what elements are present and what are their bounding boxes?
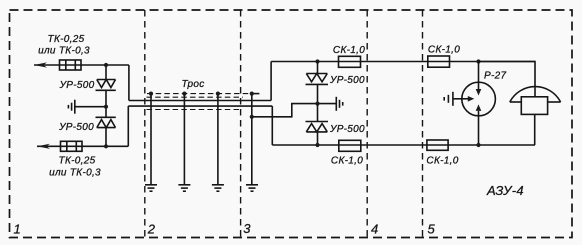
wire: lower pair line <box>128 105 272 107</box>
svg-text:Р-27: Р-27 <box>484 71 506 82</box>
fuse ТК F2 bottom <box>61 141 83 151</box>
wire: link from cable ground to arrester midpoint <box>252 104 318 117</box>
section divider 4/5 <box>422 10 424 238</box>
telephone chord left <box>510 101 522 103</box>
node: circle top junction <box>476 59 480 63</box>
arrester УР-500 upper (section 3) <box>306 74 329 85</box>
ground (left-facing) section 1 <box>68 100 74 114</box>
wire: chain vertical upper section 3 <box>317 62 319 74</box>
svg-text:УР-500: УР-500 <box>58 122 94 133</box>
svg-text:АЗУ-4: АЗУ-4 <box>486 183 524 198</box>
wire: top line sections 3-5 <box>271 61 535 63</box>
wire: ground drop 1 <box>150 94 152 185</box>
cable Трос dashed upper <box>147 93 251 95</box>
arrow: line continues left (top) <box>34 62 47 67</box>
wire: up from bottom line to Р-27 <box>478 111 480 145</box>
arrester УР-500 lower (section 1) <box>96 117 116 127</box>
telephone body <box>521 97 547 115</box>
svg-text:4: 4 <box>371 222 379 237</box>
svg-text:СК-1,0: СК-1,0 <box>428 45 460 56</box>
fuse ТК F1 top <box>60 60 82 70</box>
svg-text:или ТК-0,3: или ТК-0,3 <box>38 46 90 57</box>
section divider 3/4 <box>366 10 368 238</box>
node: arrester chain top junction section 3 <box>315 59 319 63</box>
svg-text:УР-500: УР-500 <box>329 124 365 135</box>
node: tap 4 <box>250 92 254 96</box>
svg-text:СК-1,0: СК-1,0 <box>333 45 365 56</box>
electrode arrow bottom <box>476 104 482 111</box>
wire: riser up to top line section 3 <box>270 62 272 101</box>
wire: branch to telephone top <box>479 62 536 97</box>
ground (right-facing) section 3 <box>336 97 342 111</box>
node: bottom junction section 1 <box>104 144 108 148</box>
svg-text:1: 1 <box>14 222 22 237</box>
wire: riser from bottom line up to lower pair wire <box>127 106 129 146</box>
wire: chain bottom section 3 <box>317 132 319 145</box>
wire: arrester chain vertical section 1 <box>105 65 107 80</box>
wire: bottom line of section 1 <box>37 145 128 147</box>
ground 4 <box>246 185 258 191</box>
wire: top line of section 1 <box>34 64 129 66</box>
ground 2 <box>178 185 190 191</box>
fuse СК-1,0 top (section 5) <box>428 56 450 67</box>
wire: bottom line sections 3-5 <box>272 144 535 146</box>
wire: upper pair line <box>129 100 271 102</box>
ground (left-facing) section 5 <box>444 92 453 106</box>
node: chain bottom junction section 3 <box>315 143 319 147</box>
node: tap 1 <box>149 92 153 96</box>
arrester УР-500 upper (section 1) <box>96 80 116 91</box>
svg-text:3: 3 <box>243 221 251 236</box>
fuse СК-1,0 bottom (section 3) <box>339 140 361 151</box>
node: ground tap junction section 1 <box>104 105 108 109</box>
electrode arrow left <box>468 96 475 102</box>
arrester Р-27 circle <box>462 82 496 116</box>
node: tap 2 <box>182 92 186 96</box>
wire: ground drop 3 <box>217 94 219 185</box>
svg-text:УР-500: УР-500 <box>59 80 95 91</box>
wire: chain middle section 3 <box>317 84 319 121</box>
wire: ground electrode into Р-27 <box>453 98 468 100</box>
svg-text:Трос: Трос <box>181 79 204 90</box>
wire: ground drop 2 <box>183 94 185 185</box>
svg-text:ТК-0,25: ТК-0,25 <box>48 34 85 45</box>
section divider 2/3 <box>240 10 242 238</box>
wire: arrester chain to bottom line section 1 <box>105 128 107 147</box>
node: circle bottom junction <box>476 143 480 147</box>
ground 1 <box>145 185 157 191</box>
svg-text:2: 2 <box>147 222 156 237</box>
wire: riser from top line down to upper pair wire <box>128 65 130 101</box>
wire: to ground section 3 <box>318 103 337 105</box>
fuse СК-1,0 bottom (section 5) <box>427 140 448 150</box>
wire: to ground section 1 <box>75 106 106 108</box>
wire: ground drop 4 <box>251 94 253 185</box>
node: link tap on drop 4 <box>250 115 254 119</box>
node: midpoint junction section 3 <box>315 102 319 106</box>
cable sheath dashed upper <box>147 96 244 98</box>
svg-text:5: 5 <box>428 222 436 237</box>
svg-text:ТК-0,25: ТК-0,25 <box>59 156 96 167</box>
node: tap 3 <box>216 92 220 96</box>
svg-text:или ТК-0,3: или ТК-0,3 <box>49 168 101 179</box>
svg-text:СК-1,0: СК-1,0 <box>331 156 363 167</box>
wire: between arresters section 1 <box>105 90 107 117</box>
electrode arrow top <box>476 89 482 96</box>
arrow: line continues left (bottom) <box>37 144 50 149</box>
ground 3 <box>212 185 224 191</box>
wire: cable stub right of last tap <box>252 93 260 95</box>
cable sheath dashed lower <box>147 109 242 111</box>
telephone receiver arc <box>510 87 561 102</box>
wire: down to arrester Р-27 <box>478 62 480 90</box>
svg-text:УР-500: УР-500 <box>329 75 365 86</box>
section divider 1/2 <box>144 10 146 238</box>
arrester УР-500 lower (section 3) <box>306 122 329 132</box>
fuse СК-1,0 top (section 3) <box>339 56 361 67</box>
telephone chord right <box>548 101 561 103</box>
wire: riser down to bottom line section 3 <box>271 106 273 145</box>
wire: telephone to bottom line <box>534 114 536 145</box>
node: top junction section 1 <box>104 63 108 67</box>
svg-text:СК-1,0: СК-1,0 <box>426 156 458 167</box>
